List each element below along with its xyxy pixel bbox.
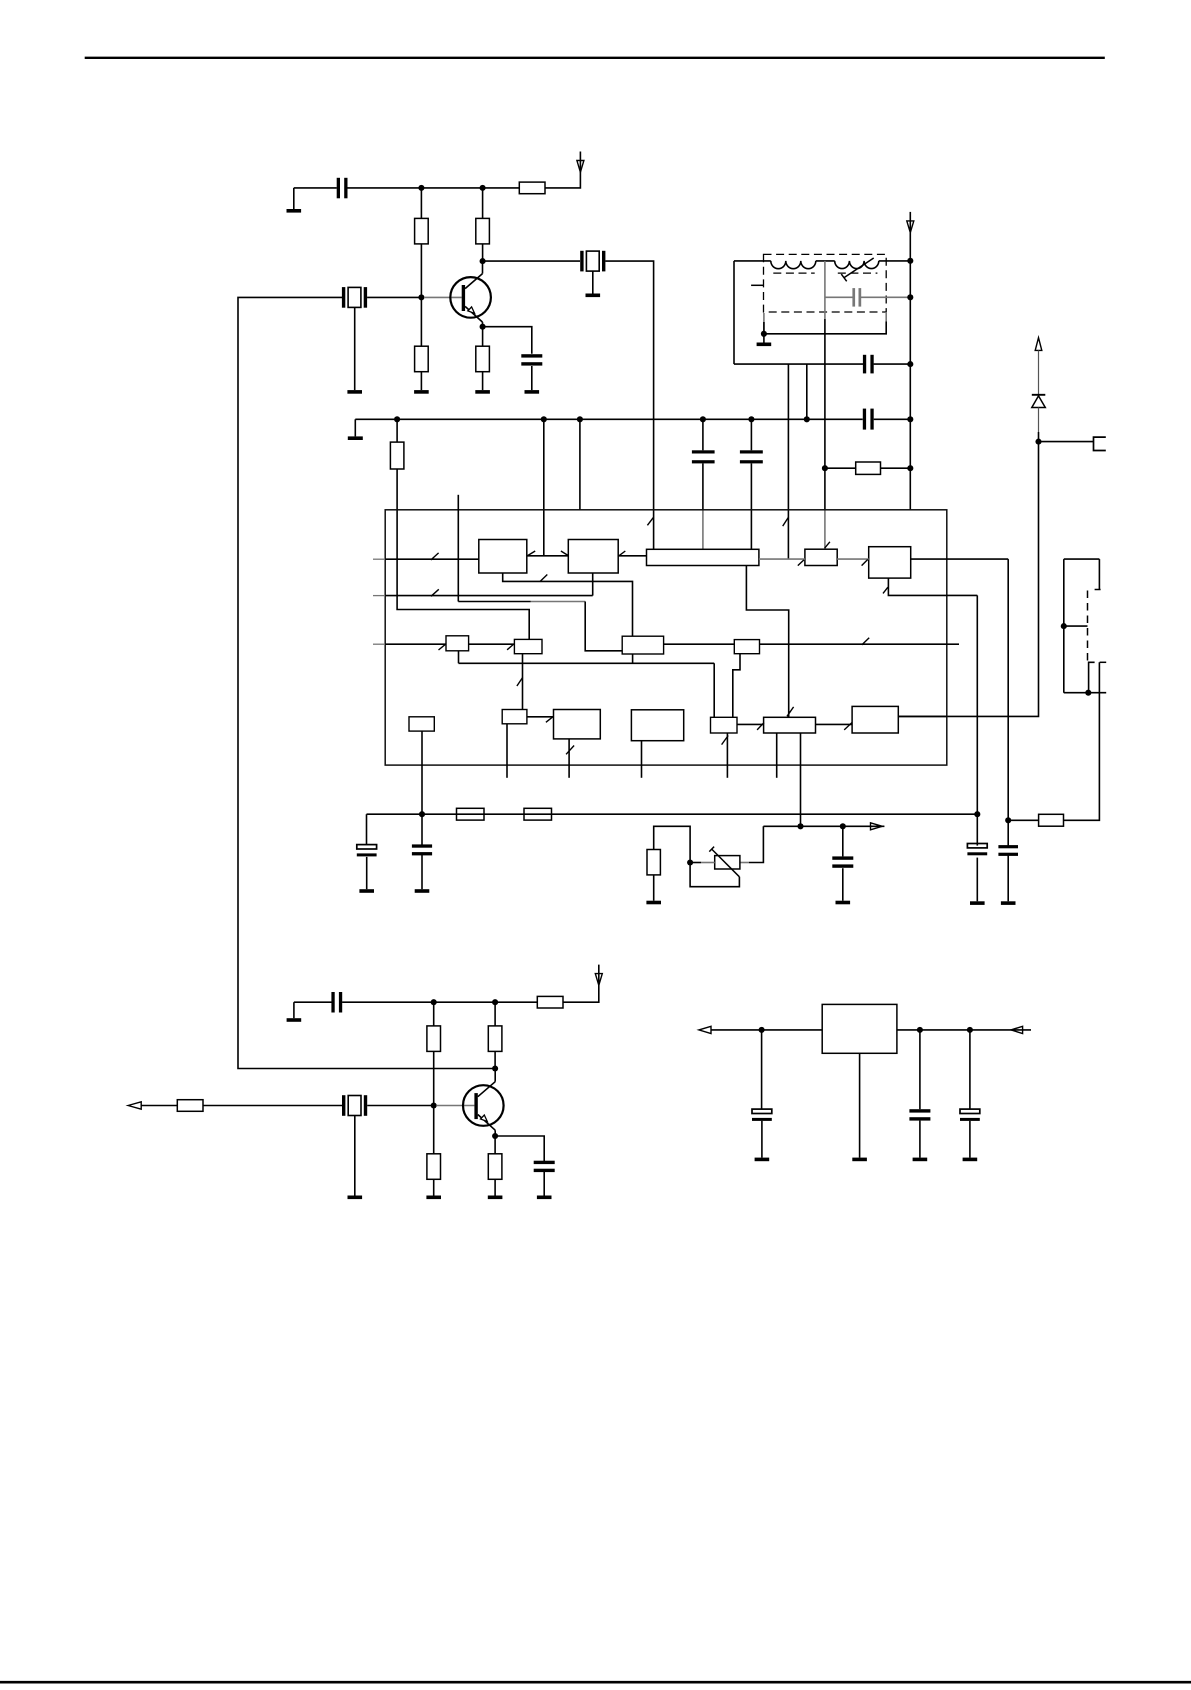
wire rail left end to ground <box>354 419 356 436</box>
wire lower link line <box>734 363 910 365</box>
resistor R8 <box>457 808 485 820</box>
wire demod pin drop <box>976 595 978 814</box>
wire link drop 1 into IC <box>787 419 789 559</box>
wire coil to supply <box>879 260 911 262</box>
earpiece right upper lead <box>1098 559 1100 589</box>
ground G22 <box>913 1158 928 1162</box>
block ref 1 <box>446 636 469 651</box>
wire ref2 to oscbuf <box>522 654 524 710</box>
wire slicer-out link <box>816 723 853 725</box>
inductor L2 (tunable) <box>835 261 879 269</box>
wire demod bottom pin <box>888 578 977 595</box>
supply arrow A3 (up) <box>1035 338 1042 351</box>
wire out stage pin <box>898 715 947 717</box>
wire R13 to node G <box>1008 819 1038 821</box>
tick into RF amp <box>527 551 535 556</box>
wire link drop 2 <box>806 364 808 419</box>
resistor R3 <box>519 182 545 194</box>
junction rail-R6 <box>394 416 400 422</box>
node B (junction) <box>480 185 486 191</box>
resistor R17 <box>488 1154 502 1180</box>
tick comp pin <box>722 736 729 745</box>
wire R1 to node C <box>420 244 422 298</box>
junction tap-R7 <box>822 465 828 471</box>
ground G21 <box>852 1158 867 1162</box>
tick into IF amp <box>798 560 804 566</box>
resistor R10 <box>647 850 660 875</box>
earpiece left lead <box>1063 559 1065 693</box>
block comp <box>711 717 738 733</box>
wire node I to node J <box>434 1001 495 1003</box>
junction coil ground <box>761 331 767 337</box>
wire pinC vertical <box>579 419 581 510</box>
wire demod out drop <box>1007 559 1009 820</box>
wire C16 to ground <box>919 1121 921 1158</box>
crystal X1 <box>342 287 367 308</box>
pin 1 stub (grey) <box>373 558 385 560</box>
transistor T2 <box>463 1069 504 1137</box>
tick ref4 out <box>862 638 869 645</box>
wire node J to R14 <box>494 1002 496 1026</box>
pin slicer agc down <box>800 733 802 826</box>
junction rail-pinC <box>577 416 583 422</box>
wire X1 to node C <box>367 296 421 298</box>
pin 3 stub (grey) <box>373 643 385 645</box>
wire node F to connector <box>1039 441 1094 443</box>
wire coil box left drop <box>733 261 735 364</box>
wire demod drop to C10 <box>976 814 978 845</box>
wire rail to C5 <box>750 419 752 450</box>
regulator U2 <box>822 1004 897 1053</box>
wire stub link grey <box>531 601 585 603</box>
node K (base junction) <box>431 1102 437 1108</box>
earpiece contact tick <box>1095 589 1101 591</box>
wire bus to comp <box>713 663 715 717</box>
node O (junction) <box>917 1027 923 1033</box>
wire node E to C2 <box>483 327 532 354</box>
ground G20 <box>755 1158 770 1162</box>
pin bias down <box>421 731 423 814</box>
wire arrow to R15 <box>141 1105 177 1107</box>
wire coil ground stub <box>763 313 765 334</box>
junction rail-coil <box>804 416 810 422</box>
tick into slicer top <box>787 707 794 716</box>
wire X2 to IC pin via vertical <box>605 261 653 549</box>
wire coil tap into IC (grey) <box>824 468 826 549</box>
ground G15 <box>287 1002 302 1022</box>
wire D-E link (grey) <box>837 558 869 560</box>
wire coil bottom return <box>764 312 886 334</box>
wire coil feed left <box>734 260 771 262</box>
resistor R13 <box>1039 814 1064 826</box>
node L (collector junction) <box>492 1065 498 1071</box>
wire R4 to ground <box>420 372 422 390</box>
junction rail-bias <box>419 811 425 817</box>
dashed core line L2 <box>838 272 878 274</box>
trimmer arrow through L2 <box>841 258 873 281</box>
wire stub pin above IC <box>457 495 459 602</box>
capacitor C14 <box>534 1161 555 1172</box>
junction agc-pin <box>797 823 803 829</box>
block ref 4 <box>734 640 759 654</box>
wire R3 to supply arrow <box>545 152 580 188</box>
wire R15 to X3 <box>203 1105 342 1107</box>
tick into mixer right <box>619 551 626 556</box>
wire node A to R1 <box>420 188 422 219</box>
wire X3 to node K <box>367 1105 434 1107</box>
pin stub logic <box>641 741 643 778</box>
wire R7 line <box>825 467 910 469</box>
tick RF tab <box>540 575 547 582</box>
junction rail-C4 <box>700 416 706 422</box>
wire C17 to ground <box>969 1121 971 1158</box>
resistor R5 <box>476 346 490 372</box>
node A (junction) <box>418 185 424 191</box>
tick into out stage <box>844 723 852 730</box>
wire node C to T1 base (grey) <box>424 296 462 298</box>
wire C8 to ground <box>366 857 368 889</box>
capacitor C4 <box>692 450 715 463</box>
wire rail left drop <box>366 814 368 845</box>
capacitor C3 (series in rail) <box>863 409 874 430</box>
resistor R1 <box>415 218 429 244</box>
junction supply-C6 <box>907 294 913 300</box>
wire node O to C16 <box>919 1030 921 1109</box>
wire link1 tick <box>783 517 789 526</box>
earpiece mid junction <box>1061 623 1067 629</box>
capacitor C11 <box>998 845 1018 856</box>
tick coil tap into IF amp <box>825 542 830 548</box>
wire agc left drop <box>749 826 763 862</box>
wire supply rail left segment <box>355 418 862 420</box>
wire arrow to diode (thin) <box>1038 350 1040 394</box>
wire link into ref3 left <box>585 602 622 651</box>
ground G12 <box>1001 901 1016 905</box>
arrow OUT left <box>128 1102 141 1109</box>
supply arrow A4 <box>595 974 602 986</box>
wire ref1-ref2 link <box>469 643 515 645</box>
dashed screening box <box>764 254 887 312</box>
wire rail-C9 drop <box>421 814 423 845</box>
ground G23 <box>963 1158 978 1162</box>
ground G10 <box>415 889 430 893</box>
junction agc-C12 <box>840 823 846 829</box>
supply arrow A1 <box>577 161 584 173</box>
wire coil tap vertical upper (grey) <box>824 261 826 319</box>
wire node N to C15 <box>761 1030 763 1109</box>
wire C2 to ground <box>531 366 533 390</box>
wire node C to R4 <box>420 297 422 346</box>
pin 3 tick <box>439 644 446 650</box>
tick oscbuf <box>517 678 523 687</box>
wire R5 to ground <box>482 372 484 390</box>
wire R11 to supply arrow <box>563 965 599 1003</box>
junction supply-R7line <box>907 465 913 471</box>
wire coil ground drop <box>763 334 765 343</box>
wire G1 to C1 <box>294 187 337 189</box>
tick into ref2 <box>507 644 513 649</box>
wire B-C link <box>618 555 646 557</box>
wire comp-slicer link <box>737 723 764 725</box>
wire C12 drop <box>842 826 844 856</box>
ground G3 <box>414 390 429 394</box>
ground G7 <box>348 436 363 440</box>
block bias <box>409 717 434 731</box>
wire R14 to node L <box>494 1051 496 1068</box>
node N (junction) <box>759 1027 765 1033</box>
ground G17 <box>426 1196 441 1200</box>
wire pot wiper loop <box>690 863 739 887</box>
wire diode to node F (thin) <box>1038 408 1040 433</box>
wire pot left (grey) <box>701 862 715 864</box>
resistor R16 <box>427 1154 441 1180</box>
wire rail to C4 <box>702 419 704 450</box>
wire node J to R11 <box>495 1001 537 1003</box>
capacitor C1 <box>337 178 348 199</box>
wire C15 to ground <box>761 1121 763 1158</box>
bottom page rule <box>0 1681 1191 1684</box>
ground G11 <box>970 901 985 905</box>
node F (junction) <box>1035 439 1041 445</box>
IC U1 outline <box>385 510 947 765</box>
connector J1 <box>1094 437 1106 450</box>
wire supply rail right segment <box>874 418 911 420</box>
resistor R12 <box>427 1026 441 1052</box>
wire X3 ground stub <box>354 1116 356 1196</box>
capacitor C12 <box>832 856 853 867</box>
wire C12 to ground <box>842 868 844 901</box>
wire C14 to ground <box>543 1172 545 1196</box>
resistor R15 <box>177 1100 203 1112</box>
wire coil centre segment <box>816 260 835 262</box>
wire R6 into IC <box>397 469 529 639</box>
wire R17 to ground <box>494 1179 496 1195</box>
tick into slicer <box>757 723 764 730</box>
ground G13 <box>646 901 661 905</box>
pin 1 tick <box>431 553 439 560</box>
earpiece dashed body <box>1087 591 1089 662</box>
wire X2 ground stub <box>592 271 594 293</box>
node I (junction) <box>431 999 437 1005</box>
block logic <box>631 710 683 741</box>
node D (collector junction) <box>480 258 486 264</box>
diode D1 <box>1032 395 1046 408</box>
wire node M to C14 <box>495 1136 544 1161</box>
wire demod out <box>911 558 1009 560</box>
capacitor C2 <box>521 354 542 365</box>
wire node B to R2 <box>482 188 484 219</box>
tick demod bottom <box>883 587 888 593</box>
pin 3 line <box>385 643 446 645</box>
wire C9 to ground <box>421 854 423 889</box>
block RF amp <box>479 540 527 574</box>
pin 2 tick <box>431 589 439 596</box>
capacitor C10 (electrolytic) <box>967 844 987 856</box>
wire IF filter tab <box>746 566 788 718</box>
wire earpiece to R13 <box>1064 662 1100 820</box>
wire long left branch <box>238 297 495 1068</box>
inductor L1 <box>771 261 816 269</box>
wire grey cap line <box>825 296 910 298</box>
resistor R14 <box>488 1026 502 1052</box>
capacitor C8 (electrolytic) <box>357 845 377 857</box>
block ref 3 <box>622 636 663 654</box>
block ref 2 <box>514 639 542 653</box>
node H (junction) <box>687 859 693 865</box>
arrow AGC out <box>871 823 883 830</box>
capacitor C16 <box>909 1109 930 1120</box>
wire C1 to node A <box>347 187 421 189</box>
wire U2 output <box>897 1029 1031 1031</box>
junction rail-pinB <box>541 416 547 422</box>
dashed core line L1 <box>773 272 814 274</box>
resistor R4 <box>415 346 429 372</box>
ground G16 <box>348 1196 363 1200</box>
capacitor C7 (series) <box>863 355 874 374</box>
resistor R2 <box>476 218 490 244</box>
ground G6 <box>586 294 601 298</box>
wire node K to R16 <box>433 1106 435 1154</box>
core adjust mark <box>751 284 763 286</box>
wire node A to node B <box>421 187 482 189</box>
capacitor C6 (grey) <box>852 288 861 307</box>
wire C4 into IC (grey below edge) <box>702 464 704 550</box>
junction supply-C7 <box>907 361 913 367</box>
pin stub divider <box>568 739 570 778</box>
wire ref1 tab <box>458 651 460 664</box>
node J (junction) <box>492 999 498 1005</box>
wire coil tap vertical lower <box>824 319 826 468</box>
wire C-D link (grey) <box>759 558 805 560</box>
potentiometer RV1 <box>709 847 740 877</box>
crystal X3 <box>342 1095 367 1116</box>
capacitor C5 <box>740 450 763 463</box>
earpiece lower-left lead <box>1089 662 1095 692</box>
wire RF amp bottom tab <box>503 573 633 636</box>
earpiece mid lead <box>1064 625 1088 627</box>
wire ref3 tab <box>632 654 634 663</box>
earpiece top lead <box>1064 558 1100 560</box>
resistor R9 <box>524 808 552 820</box>
wire bottom rail <box>367 813 978 815</box>
block data slicer <box>764 717 816 733</box>
node P (junction) <box>967 1027 973 1033</box>
wire node I to R12 <box>433 1002 435 1026</box>
wire X1 ground stub <box>354 307 356 390</box>
earpiece bottom lead <box>1064 692 1106 694</box>
wire R16 to ground <box>433 1179 435 1195</box>
block divider <box>554 710 601 739</box>
wire pinB vertical <box>543 419 545 556</box>
pin stub slicer <box>776 733 778 778</box>
wire A-B link <box>527 555 569 557</box>
wire link drop 1 <box>787 364 789 419</box>
wire supply vertical <box>909 261 911 510</box>
wire ref4 to comp <box>733 654 740 718</box>
tick into mixer <box>561 551 569 556</box>
arrow VREG out <box>699 1026 711 1033</box>
wire arrow to U2 <box>711 1029 822 1031</box>
block out stage <box>852 706 898 733</box>
block osc buf <box>502 710 527 724</box>
pin stub comp <box>726 733 728 778</box>
wire R2 to collector node D <box>482 244 484 261</box>
wire thin to node F <box>1038 432 1040 442</box>
pin 2 stub (grey) <box>373 595 385 597</box>
wire node K to T2 base (grey) <box>436 1105 474 1107</box>
junction supply-coil <box>907 258 913 264</box>
junction rail-demod drop <box>974 811 980 817</box>
resistor R6 <box>390 442 404 469</box>
block demod <box>869 547 911 578</box>
wire R10 to ground <box>653 875 655 901</box>
pin stub k <box>506 724 508 778</box>
pin stub right mid <box>947 643 959 645</box>
ground G1 <box>287 188 302 213</box>
earpiece bottom junction <box>1085 690 1091 696</box>
wire C13 to node I <box>342 1001 434 1003</box>
wire ref3-ref4 link <box>664 643 735 645</box>
wire bottom bus <box>459 662 715 664</box>
capacitor C13 <box>331 992 342 1013</box>
tick into divider <box>546 716 553 722</box>
wire ref4 out <box>760 643 947 645</box>
wire node D to X2 <box>483 260 580 262</box>
crystal X2 <box>580 251 605 272</box>
capacitor C9 <box>412 844 432 855</box>
ground G4 <box>475 390 490 394</box>
block mixer <box>568 540 618 574</box>
wire R12 to node K <box>433 1051 435 1105</box>
wire node B to R3 <box>483 187 520 189</box>
top page rule <box>85 57 1105 59</box>
capacitor C17 (electrolytic) <box>960 1109 980 1121</box>
ground G14 <box>836 901 851 905</box>
wire G15 to C13 <box>294 1001 332 1003</box>
pin 1 line <box>385 558 479 560</box>
tick into demod <box>862 560 868 566</box>
resistor R7 <box>856 462 881 474</box>
node C (base junction) <box>418 294 424 300</box>
supply arrow A2 <box>907 212 914 261</box>
wire node H up and over <box>654 826 690 862</box>
earpiece lower dash <box>1100 661 1107 663</box>
wire pot left black <box>690 862 701 864</box>
wire node M to R17 <box>494 1136 496 1154</box>
ground G2 <box>347 390 362 394</box>
wire node F down to IC pin <box>898 442 1038 717</box>
ground G9 <box>359 889 374 893</box>
ground G18 <box>488 1196 503 1200</box>
wire node P to C17 <box>969 1030 971 1109</box>
wire oscbuf-divider link <box>527 716 554 718</box>
node E (emitter junction) <box>480 324 486 330</box>
wire U2 ground pin <box>859 1053 861 1157</box>
wire node G to C11 <box>1007 820 1009 846</box>
ground G8 <box>757 343 772 347</box>
wire agc node line <box>763 825 884 827</box>
wire mixer bottom tab <box>592 573 594 596</box>
node G (junction) <box>1005 817 1011 823</box>
wire node E to R5 <box>482 327 484 347</box>
tick divider pin <box>566 746 574 755</box>
wire C10 to ground <box>976 858 978 902</box>
ground G5 <box>525 390 540 394</box>
wire C11 to ground <box>1007 855 1009 901</box>
wire C5 into IC <box>750 464 752 550</box>
node M (emitter junction) <box>492 1133 498 1139</box>
resistor R11 <box>537 996 563 1008</box>
